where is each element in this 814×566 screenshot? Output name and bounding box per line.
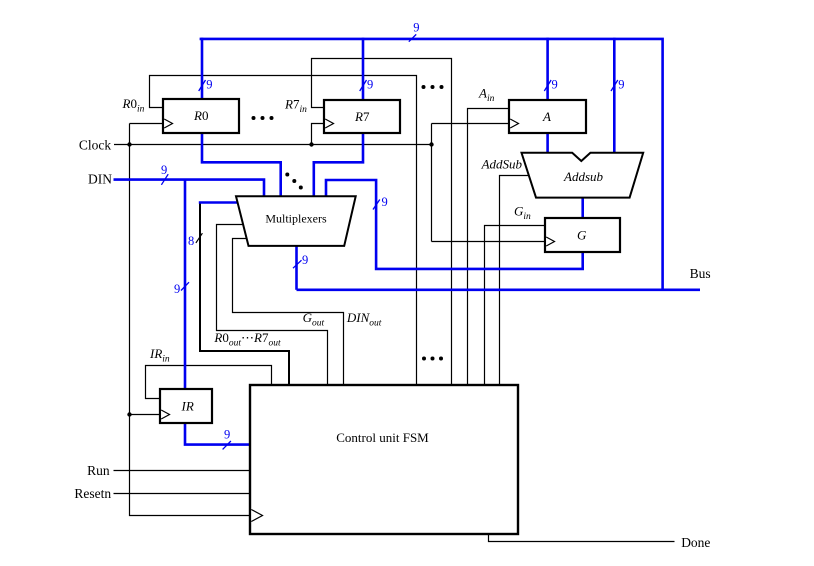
svg-text:R0: R0 — [193, 108, 208, 123]
svg-text:9: 9 — [382, 195, 388, 209]
svg-text:9: 9 — [302, 253, 308, 267]
svg-text:R7: R7 — [354, 109, 370, 124]
svg-text:AddSub: AddSub — [481, 157, 523, 172]
svg-text:Run: Run — [87, 463, 110, 478]
svg-text:8: 8 — [188, 234, 194, 248]
svg-text:A: A — [542, 109, 551, 124]
svg-text:IR: IR — [181, 399, 194, 414]
svg-text:Control unit FSM: Control unit FSM — [336, 430, 429, 445]
svg-text:DIN: DIN — [88, 172, 112, 187]
svg-text:9: 9 — [224, 428, 230, 442]
svg-text:Bus: Bus — [690, 266, 711, 281]
svg-text:Multiplexers: Multiplexers — [265, 212, 327, 226]
svg-text:9: 9 — [618, 78, 624, 92]
svg-text:Clock: Clock — [79, 137, 111, 152]
svg-text:G: G — [577, 228, 587, 243]
svg-text:9: 9 — [413, 20, 419, 34]
svg-text:Addsub: Addsub — [563, 169, 604, 184]
svg-text:9: 9 — [367, 78, 373, 92]
svg-text:Resetn: Resetn — [74, 486, 111, 501]
svg-text:9: 9 — [206, 78, 212, 92]
svg-text:Done: Done — [681, 535, 710, 550]
svg-text:9: 9 — [161, 163, 167, 177]
svg-text:9: 9 — [552, 78, 558, 92]
svg-text:9: 9 — [174, 282, 180, 296]
